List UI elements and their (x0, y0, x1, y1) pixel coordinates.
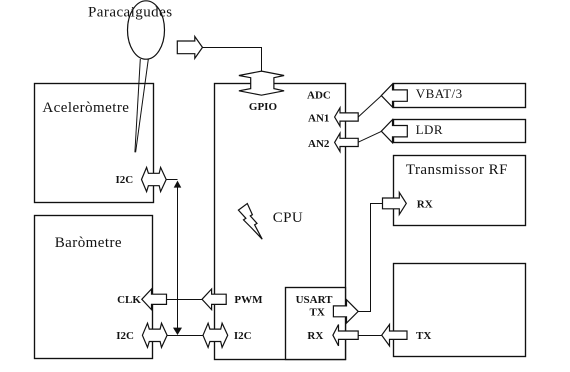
arrow AN2 input (335, 133, 359, 151)
balloon Paracaigudes (128, 1, 165, 59)
box USART block (286, 288, 346, 360)
svg-text:PWM: PWM (234, 294, 263, 306)
wire VBAT/3 to AN1 (358, 96, 381, 117)
arrow RF RX input (383, 192, 407, 214)
arrow VBAT/3 output (381, 84, 407, 107)
box Barometer (35, 216, 153, 359)
wire vertical I2C bus (177, 186, 179, 329)
arrow I2C barometer bidirectional (142, 323, 167, 347)
svg-text:USART: USART (296, 294, 334, 306)
svg-text:AN2: AN2 (308, 138, 330, 150)
wire LDR to AN2 (358, 131, 381, 142)
svg-text:VBAT/3: VBAT/3 (416, 86, 463, 101)
wire RX to TX (358, 335, 382, 337)
arrow AN1 input (335, 108, 359, 126)
svg-text:I2C: I2C (116, 330, 134, 342)
wire top arrow to GPIO (202, 48, 261, 72)
arrow CLK input (142, 289, 167, 310)
arrow top input (177, 37, 202, 59)
svg-text:CPU: CPU (273, 210, 304, 226)
wire USART TX to RF RX (358, 204, 382, 312)
box LDR (394, 120, 526, 143)
wire CLK to PWM (167, 299, 203, 301)
balloon string right (136, 59, 149, 152)
svg-text:LDR: LDR (416, 122, 443, 137)
svg-text:I2C: I2C (234, 330, 252, 342)
svg-text:ADC: ADC (307, 90, 331, 102)
svg-text:I2C: I2C (116, 174, 134, 186)
arrow USART TX output (333, 300, 358, 323)
arrowhead down on I2C bus (173, 328, 182, 335)
lightning bolt (238, 204, 262, 240)
svg-text:TX: TX (416, 330, 431, 342)
box bottom-right transmitter (394, 264, 526, 357)
arrow TX output (382, 325, 407, 346)
arrow PWM output (202, 289, 226, 310)
svg-text:RX: RX (307, 330, 323, 342)
arrow I2C CPU bidirectional (203, 323, 228, 347)
box Accelerometer (35, 84, 154, 203)
box Transmissor RF (394, 156, 526, 226)
svg-text:AN1: AN1 (308, 113, 329, 125)
box CPU U1 (215, 84, 346, 360)
arrowhead up on I2C bus (174, 181, 182, 188)
svg-text:RX: RX (417, 199, 433, 211)
balloon string left (135, 59, 140, 152)
svg-text:Paracaigudes: Paracaigudes (88, 4, 173, 20)
svg-text:CLK: CLK (117, 294, 141, 306)
arrow LDR output (381, 120, 407, 143)
arrow GPIO bidirectional (239, 71, 284, 95)
svg-text:Baròmetre: Baròmetre (55, 235, 122, 251)
svg-text:TX: TX (310, 306, 325, 318)
arrow I2C accelerometer bidirectional (142, 167, 167, 191)
arrow CPU RX input (333, 325, 358, 346)
wire I2C barometer to I2C CPU (167, 335, 203, 337)
svg-text:Aceleròmetre: Aceleròmetre (42, 100, 129, 116)
svg-text:GPIO: GPIO (249, 101, 278, 113)
svg-text:Transmissor RF: Transmissor RF (406, 162, 508, 178)
box VBAT/3 (394, 84, 526, 108)
wire I2C accel to vertical bus (166, 179, 177, 181)
